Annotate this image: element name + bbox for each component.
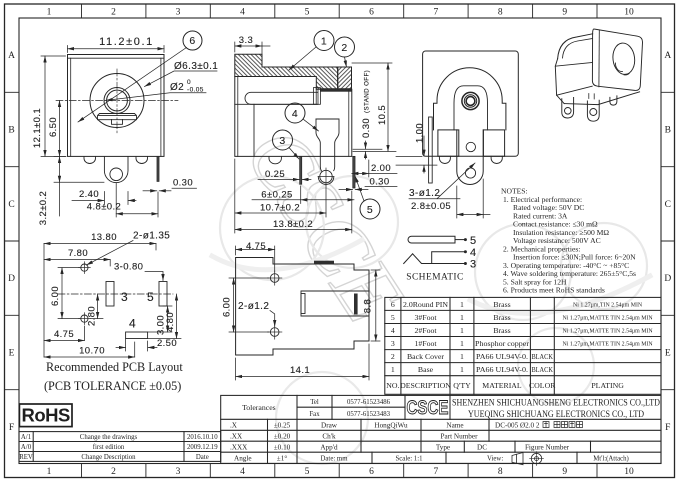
svg-text:2#Foot: 2#Foot — [414, 326, 437, 335]
svg-text:1: 1 — [460, 313, 464, 322]
grid labels letters right — [664, 51, 671, 433]
svg-text:(STAND OFF): (STAND OFF) — [364, 70, 371, 113]
front view body rectangle — [68, 55, 165, 157]
balloon 6 — [183, 31, 202, 50]
svg-text:Type: Type — [436, 444, 450, 452]
grid ticks right — [661, 92, 675, 389]
svg-text:Base: Base — [418, 365, 434, 374]
svg-text:0: 0 — [187, 79, 191, 86]
tel fax cells — [309, 399, 390, 418]
svg-text:DC: DC — [477, 444, 487, 452]
svg-text:4: 4 — [240, 467, 245, 477]
svg-text:4: 4 — [470, 247, 477, 259]
svg-text:A/1: A/1 — [21, 434, 31, 441]
svg-text:3: 3 — [121, 290, 128, 304]
balloon 6 leader — [78, 48, 187, 123]
svg-text:0.30: 0.30 — [361, 118, 372, 138]
svg-text:3-0.80: 3-0.80 — [114, 262, 143, 273]
svg-text:4: 4 — [129, 317, 136, 331]
parts table frame — [385, 297, 661, 394]
pcb pad 5 — [159, 282, 167, 307]
svg-text:5: 5 — [470, 235, 477, 247]
side view body box — [235, 77, 352, 157]
balloon 5 leader — [355, 176, 364, 201]
svg-text:10.7±0.2: 10.7±0.2 — [260, 203, 300, 214]
balloon 4 leader — [303, 119, 319, 131]
svg-text:0.30: 0.30 — [173, 178, 193, 189]
svg-text:2.50: 2.50 — [157, 338, 177, 349]
svg-text:0577-61523483: 0577-61523483 — [347, 411, 391, 418]
grid labels letters left — [8, 51, 15, 433]
svg-text:2-ø1.35: 2-ø1.35 — [133, 231, 170, 242]
balloon 5 — [360, 199, 380, 219]
pcb pad hole bottom — [79, 313, 91, 325]
svg-text:D: D — [8, 274, 15, 284]
svg-text:D: D — [664, 274, 671, 284]
front view centerlines — [56, 69, 178, 134]
svg-text:8.8: 8.8 — [363, 299, 374, 313]
rear view side block left — [438, 130, 459, 156]
front view pin rings — [104, 88, 130, 114]
name part-number cells — [436, 422, 570, 452]
svg-text:6. Products meet RoHS standard: 6. Products meet RoHS standards — [503, 286, 605, 295]
svg-text:App'd: App'd — [320, 444, 338, 452]
svg-text:1: 1 — [460, 352, 464, 361]
svg-text:SCHEMATIC: SCHEMATIC — [406, 273, 463, 283]
svg-text:9: 9 — [562, 467, 567, 477]
svg-text:Tolerances: Tolerances — [242, 403, 276, 412]
balloon 1 — [314, 31, 334, 51]
svg-text:COLOR: COLOR — [529, 381, 556, 390]
rear view bump right — [491, 156, 502, 163]
grid ticks bottom — [82, 464, 598, 478]
svg-text:.X: .X — [230, 422, 238, 430]
pictorial body left side — [555, 59, 564, 104]
svg-text:Scale: 1:1: Scale: 1:1 — [396, 456, 423, 463]
svg-text:6: 6 — [391, 300, 395, 309]
side view hatched shell — [235, 54, 338, 89]
side view bottom bump — [269, 156, 281, 163]
svg-text:10: 10 — [624, 8, 634, 18]
svg-text:1: 1 — [47, 8, 52, 18]
svg-text:BLACK: BLACK — [531, 365, 553, 374]
RoHS logo box — [19, 404, 72, 427]
svg-text:PA66 UL94V-0.: PA66 UL94V-0. — [476, 352, 528, 361]
svg-text:Ni 1.27μm,MATTE TIN 2.54μm MIN: Ni 1.27μm,MATTE TIN 2.54μm MIN — [563, 315, 654, 321]
svg-text:±0.10: ±0.10 — [274, 444, 291, 452]
svg-text:10.70: 10.70 — [79, 346, 105, 357]
svg-text:5: 5 — [147, 290, 154, 304]
svg-text:SHENZHEN SHICHUANGSHENG ELECTR: SHENZHEN SHICHUANGSHENG ELECTRONICS CO.,… — [452, 398, 660, 409]
svg-text:Q'TY: Q'TY — [453, 381, 471, 390]
svg-text:0.30: 0.30 — [369, 177, 389, 188]
svg-text:3.2±0.2: 3.2±0.2 — [38, 191, 49, 225]
grid ticks top — [82, 4, 598, 18]
svg-text:Change Description: Change Description — [81, 454, 136, 461]
bottom view top contact block — [314, 261, 334, 265]
svg-text:3: 3 — [470, 259, 477, 271]
side view hatched right piece — [338, 67, 352, 89]
balloon 3 leader — [289, 148, 299, 160]
pictorial flat pin middle — [587, 100, 599, 121]
watermark CSCE diagonal text — [227, 110, 422, 339]
svg-text:8: 8 — [498, 8, 503, 18]
grid labels numbers top — [47, 8, 634, 18]
svg-text:.XX: .XX — [230, 433, 243, 441]
balloon 4 — [285, 103, 305, 123]
svg-text:14.1: 14.1 — [290, 365, 310, 376]
svg-text:4: 4 — [292, 108, 298, 120]
svg-text:9: 9 — [562, 8, 567, 18]
svg-text:Brass: Brass — [493, 313, 510, 322]
svg-text:2.80: 2.80 — [87, 306, 98, 326]
dimension 11.2±0.1 — [68, 46, 165, 53]
side view pin 5 rear — [353, 156, 355, 188]
pcb pad 3 — [106, 282, 114, 307]
svg-text:4.75: 4.75 — [54, 329, 74, 340]
balloon 2 leader — [345, 57, 347, 67]
svg-text:first edition: first edition — [93, 444, 125, 451]
svg-text:MATERIAL: MATERIAL — [482, 381, 522, 390]
svg-text:0577-61523486: 0577-61523486 — [347, 399, 391, 406]
svg-text:E: E — [9, 349, 15, 359]
svg-text:3: 3 — [176, 8, 181, 18]
svg-text:Recommended PCB Layout: Recommended PCB Layout — [46, 360, 183, 374]
chinese glyph blocks — [543, 422, 583, 428]
svg-text:HongQiWu: HongQiWu — [374, 422, 408, 430]
bottom view notch — [301, 291, 369, 316]
schematic pin 3 tip contact — [404, 254, 464, 264]
rear view dome — [434, 68, 506, 130]
pictorial front plate — [592, 29, 642, 90]
svg-text:A/0: A/0 — [21, 444, 32, 451]
svg-text:PA66 UL94V-0.: PA66 UL94V-0. — [476, 365, 528, 374]
svg-text:B: B — [665, 126, 671, 136]
front view thin pin right — [157, 156, 159, 181]
svg-text:6: 6 — [369, 8, 374, 18]
pictorial pin right stub — [610, 96, 617, 105]
side view contact 4 spring with foot — [316, 119, 339, 185]
pcb layout left extension line — [43, 244, 45, 358]
svg-text:2: 2 — [111, 8, 116, 18]
svg-text:Ø2: Ø2 — [170, 82, 184, 93]
svg-text:.XXX: .XXX — [230, 444, 248, 452]
company name lines — [452, 398, 660, 421]
svg-text:6.50: 6.50 — [48, 117, 59, 137]
svg-text:Ch'k: Ch'k — [322, 433, 336, 441]
svg-text:2.00: 2.00 — [371, 163, 391, 174]
svg-text:10.5: 10.5 — [377, 105, 388, 125]
svg-text:BLACK: BLACK — [531, 352, 553, 361]
svg-text:NO.: NO. — [386, 381, 399, 390]
pictorial body back dome — [558, 34, 593, 59]
svg-text:(PCB TOLERANCE ±0.05): (PCB TOLERANCE ±0.05) — [44, 379, 181, 393]
svg-text:7: 7 — [434, 467, 439, 477]
svg-text:6.00: 6.00 — [50, 286, 61, 306]
svg-text:6: 6 — [189, 35, 195, 47]
svg-text:Date: Date — [196, 454, 209, 461]
svg-text:2.8±0.05: 2.8±0.05 — [411, 201, 451, 212]
svg-text:7: 7 — [434, 8, 439, 18]
svg-text:12.1±0.1: 12.1±0.1 — [32, 108, 43, 148]
dimension 3.00 (rotated) — [148, 306, 172, 332]
svg-text:Brass: Brass — [493, 326, 510, 335]
svg-text:1: 1 — [460, 326, 464, 335]
svg-text:3: 3 — [391, 339, 395, 348]
svg-text:2-ø1.2: 2-ø1.2 — [238, 301, 269, 312]
dimension 12.1±0.1 (rotated) — [41, 56, 66, 156]
svg-text:Figure Number: Figure Number — [525, 444, 570, 452]
pictorial flat pin left — [562, 98, 574, 119]
grid labels numbers bottom — [47, 467, 634, 477]
svg-text:B: B — [8, 126, 14, 136]
svg-text:±0.25: ±0.25 — [274, 422, 291, 430]
front view bump pins — [84, 156, 148, 163]
svg-text:Tel: Tel — [310, 399, 319, 406]
svg-text:C: C — [665, 200, 671, 210]
svg-text:1: 1 — [460, 339, 464, 348]
svg-text:YUEQING SHICHUANG ELECTRONICS: YUEQING SHICHUANG ELECTRONICS CO., LTD — [468, 409, 644, 420]
svg-text:C: C — [8, 200, 14, 210]
svg-text:6±0.25: 6±0.25 — [261, 190, 292, 201]
svg-text:2016.10.10: 2016.10.10 — [187, 434, 218, 441]
svg-text:Ni 1.27μm,TIN 2.54μm MIN: Ni 1.27μm,TIN 2.54μm MIN — [573, 302, 643, 308]
svg-text:4: 4 — [240, 8, 245, 18]
side view dark contact strip — [320, 88, 352, 92]
svg-text:11.2±0.1: 11.2±0.1 — [99, 36, 154, 48]
pcb pad hole top — [79, 262, 91, 274]
svg-text:5: 5 — [305, 8, 310, 18]
svg-text:Mt'l:(Attach): Mt'l:(Attach) — [593, 456, 629, 463]
pcb centerline — [58, 293, 173, 295]
svg-text:6.00: 6.00 — [222, 297, 233, 317]
side view center pin cylinder — [245, 92, 318, 104]
svg-text:Ø6.3±0.1: Ø6.3±0.1 — [174, 61, 218, 72]
watermark circles — [212, 176, 650, 464]
bottom view outline — [236, 258, 369, 356]
svg-text:3-ø1.2: 3-ø1.2 — [409, 188, 440, 199]
schematic pin 5 sleeve — [408, 236, 464, 243]
svg-text:2: 2 — [341, 42, 347, 54]
dimension 4.80 (rotated) — [148, 294, 181, 339]
rear view center boss — [454, 86, 488, 130]
bottom view notch contact bar — [354, 294, 358, 315]
svg-text:DESCRIPTION: DESCRIPTION — [400, 381, 451, 390]
tolerance rows — [230, 422, 291, 463]
svg-text:10: 10 — [624, 467, 634, 477]
svg-text:±0.20: ±0.20 — [274, 433, 291, 441]
svg-text:1: 1 — [321, 35, 327, 47]
bottom view hole top — [268, 271, 282, 285]
svg-text:6: 6 — [369, 467, 374, 477]
svg-text:2.40: 2.40 — [79, 189, 99, 200]
svg-text:Part Number: Part Number — [441, 433, 479, 441]
balloon 1 leader — [289, 47, 316, 70]
svg-text:5: 5 — [391, 313, 395, 322]
balloon 3 — [273, 130, 293, 150]
svg-text:Date: mm: Date: mm — [321, 456, 349, 463]
svg-text:Ni 1.27μm,MATTE TIN 2.54μm MIN: Ni 1.27μm,MATTE TIN 2.54μm MIN — [563, 329, 654, 335]
dimension 6.00 pcb (rotated) — [58, 268, 80, 319]
svg-text:Draw: Draw — [321, 422, 338, 430]
pictorial jack hole ellipse — [611, 42, 636, 76]
pictorial body bottom — [557, 86, 593, 95]
svg-text:3: 3 — [279, 135, 285, 147]
svg-text:E: E — [665, 349, 671, 359]
svg-text:13.8±0.2: 13.8±0.2 — [273, 219, 313, 230]
svg-text:±1°: ±1° — [277, 455, 288, 463]
rear view pin circles — [462, 92, 479, 109]
svg-text:4.75: 4.75 — [246, 241, 266, 252]
svg-text:F: F — [665, 423, 670, 433]
svg-text:3: 3 — [176, 467, 181, 477]
svg-text:Ni 1.27μm,MATTE TIN 2.54μm MIN: Ni 1.27μm,MATTE TIN 2.54μm MIN — [563, 342, 654, 348]
bottom view hole bottom — [268, 325, 282, 339]
rear view bump left — [439, 156, 450, 163]
title block frame — [221, 395, 661, 463]
rear view side pin — [429, 117, 433, 183]
svg-text:Change the drawings: Change the drawings — [80, 434, 138, 441]
svg-text:Brass: Brass — [493, 300, 510, 309]
svg-text:A: A — [8, 51, 15, 61]
svg-text:Name: Name — [446, 422, 463, 430]
svg-text:2.0Round PIN: 2.0Round PIN — [403, 300, 448, 309]
rear view body rect — [423, 51, 519, 156]
svg-text:3.3: 3.3 — [239, 35, 253, 46]
svg-text:Angle: Angle — [234, 455, 252, 463]
svg-text:1: 1 — [460, 365, 464, 374]
svg-text:A: A — [664, 51, 671, 61]
pcb pad 4 — [126, 332, 148, 339]
front view contact band — [98, 114, 137, 125]
svg-text:REV: REV — [19, 454, 33, 461]
balloon 2 — [335, 37, 355, 57]
svg-text:1#Foot: 1#Foot — [414, 339, 437, 348]
side view pin holder — [313, 88, 320, 105]
svg-text:F: F — [9, 423, 14, 433]
svg-text:7.80: 7.80 — [68, 248, 88, 259]
front view big circle — [90, 74, 144, 128]
svg-text:1: 1 — [47, 467, 52, 477]
svg-text:1: 1 — [460, 300, 464, 309]
svg-text:CSCE: CSCE — [407, 398, 449, 419]
dimension 6.00 bottom view (rotated) — [229, 278, 269, 332]
dimension 8.8 (rotated) — [371, 270, 380, 341]
svg-text:4: 4 — [391, 326, 395, 335]
svg-text:Phosphor copper: Phosphor copper — [475, 339, 529, 348]
svg-text:5: 5 — [305, 467, 310, 477]
rear view side block right — [483, 130, 504, 156]
svg-text:2: 2 — [111, 467, 116, 477]
dimension 2.80 (rotated) — [90, 294, 103, 319]
svg-text:DC-005 Ø2.0 2: DC-005 Ø2.0 2 — [495, 422, 540, 430]
svg-text:2: 2 — [391, 352, 395, 361]
svg-text:5: 5 — [367, 204, 373, 216]
draw chk appd cells — [320, 422, 408, 452]
dimension 6.50 (rotated) — [59, 101, 61, 157]
grid ticks left — [5, 92, 20, 389]
svg-text:4.80: 4.80 — [165, 312, 176, 332]
svg-text:RoHS: RoHS — [22, 405, 71, 426]
svg-text:2009.12.19: 2009.12.19 — [187, 444, 218, 451]
svg-text:1: 1 — [391, 365, 395, 374]
rear view ground strip with holes — [457, 130, 483, 185]
front view ground lug with hole — [104, 156, 128, 182]
svg-text:0.25: 0.25 — [265, 169, 285, 180]
svg-text:Fax: Fax — [309, 411, 320, 418]
svg-text:3#Foot: 3#Foot — [414, 313, 437, 322]
svg-text:13.80: 13.80 — [91, 232, 117, 243]
side view thin pin 1 — [300, 156, 302, 184]
svg-text:View:: View: — [487, 456, 503, 463]
svg-text:8: 8 — [498, 467, 503, 477]
schematic pin 4 — [432, 252, 464, 264]
svg-text:Back Cover: Back Cover — [407, 352, 444, 361]
projection symbol — [512, 452, 544, 466]
svg-text:PLATING: PLATING — [591, 381, 624, 390]
bottom row date scale view — [321, 456, 629, 463]
